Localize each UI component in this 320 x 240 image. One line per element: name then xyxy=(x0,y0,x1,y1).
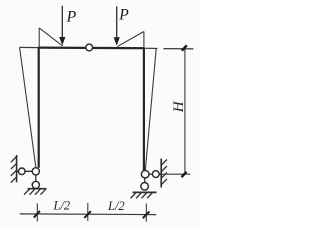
right ground hatch xyxy=(131,193,153,199)
left support horizontal link bar xyxy=(17,170,33,172)
load arrow P1 head xyxy=(59,37,65,45)
left wall hatch xyxy=(11,157,17,183)
load arrow P1 shaft xyxy=(61,6,63,38)
bottom dimension line xyxy=(20,213,157,216)
right column xyxy=(143,48,145,171)
H dimension line xyxy=(184,49,186,175)
left tick xyxy=(34,211,40,218)
beam right extension / H top extension line xyxy=(144,47,158,49)
load arrow P2 shaft xyxy=(116,6,118,38)
beam (thick top girder between columns) xyxy=(38,46,144,49)
left column top stub (triangle vertical edge) xyxy=(38,28,40,48)
left support pin circle at column base xyxy=(32,168,39,175)
svg-text:H: H xyxy=(171,100,187,113)
right wall hatch xyxy=(161,160,167,185)
right wall line xyxy=(160,159,162,188)
left slanted displaced column line xyxy=(20,47,36,167)
left extension line xyxy=(36,203,38,221)
left triangle hypotenuse xyxy=(39,28,62,46)
right support ground hinge circle xyxy=(141,183,149,191)
left ground line xyxy=(28,188,47,190)
svg-text:L/2: L/2 xyxy=(107,199,125,213)
right triangle hypotenuse xyxy=(117,32,144,47)
right support horizontal link bar xyxy=(147,173,161,175)
left support wall link hinge circle xyxy=(19,168,26,175)
H top extension line dash xyxy=(164,48,194,50)
left column xyxy=(38,48,40,168)
hinge circle at beam midspan xyxy=(86,44,93,51)
right column top stub (triangle vertical edge) xyxy=(143,32,145,49)
left support ground hinge circle xyxy=(32,181,39,188)
right support vertical link xyxy=(144,178,146,183)
middle extension line xyxy=(87,203,89,221)
right ground line xyxy=(133,191,157,193)
left ground hatch xyxy=(24,189,46,195)
H top tick xyxy=(182,45,187,50)
right support wall link hinge circle xyxy=(152,171,159,178)
left wall line xyxy=(16,155,18,182)
beam left overhang (displaced-shape top chord) xyxy=(20,46,39,48)
H bottom extension line xyxy=(161,173,190,175)
right support pin circle at column base xyxy=(141,170,149,178)
right tick xyxy=(143,212,150,219)
svg-text:L/2: L/2 xyxy=(53,199,71,213)
svg-text:P: P xyxy=(66,9,77,26)
H bottom tick xyxy=(182,172,187,177)
svg-text:P: P xyxy=(118,6,129,23)
right extension line xyxy=(145,204,147,222)
middle tick xyxy=(84,211,91,218)
left support vertical link xyxy=(35,175,37,182)
load arrow P2 head xyxy=(114,37,120,45)
right slanted displaced column line xyxy=(145,48,156,170)
